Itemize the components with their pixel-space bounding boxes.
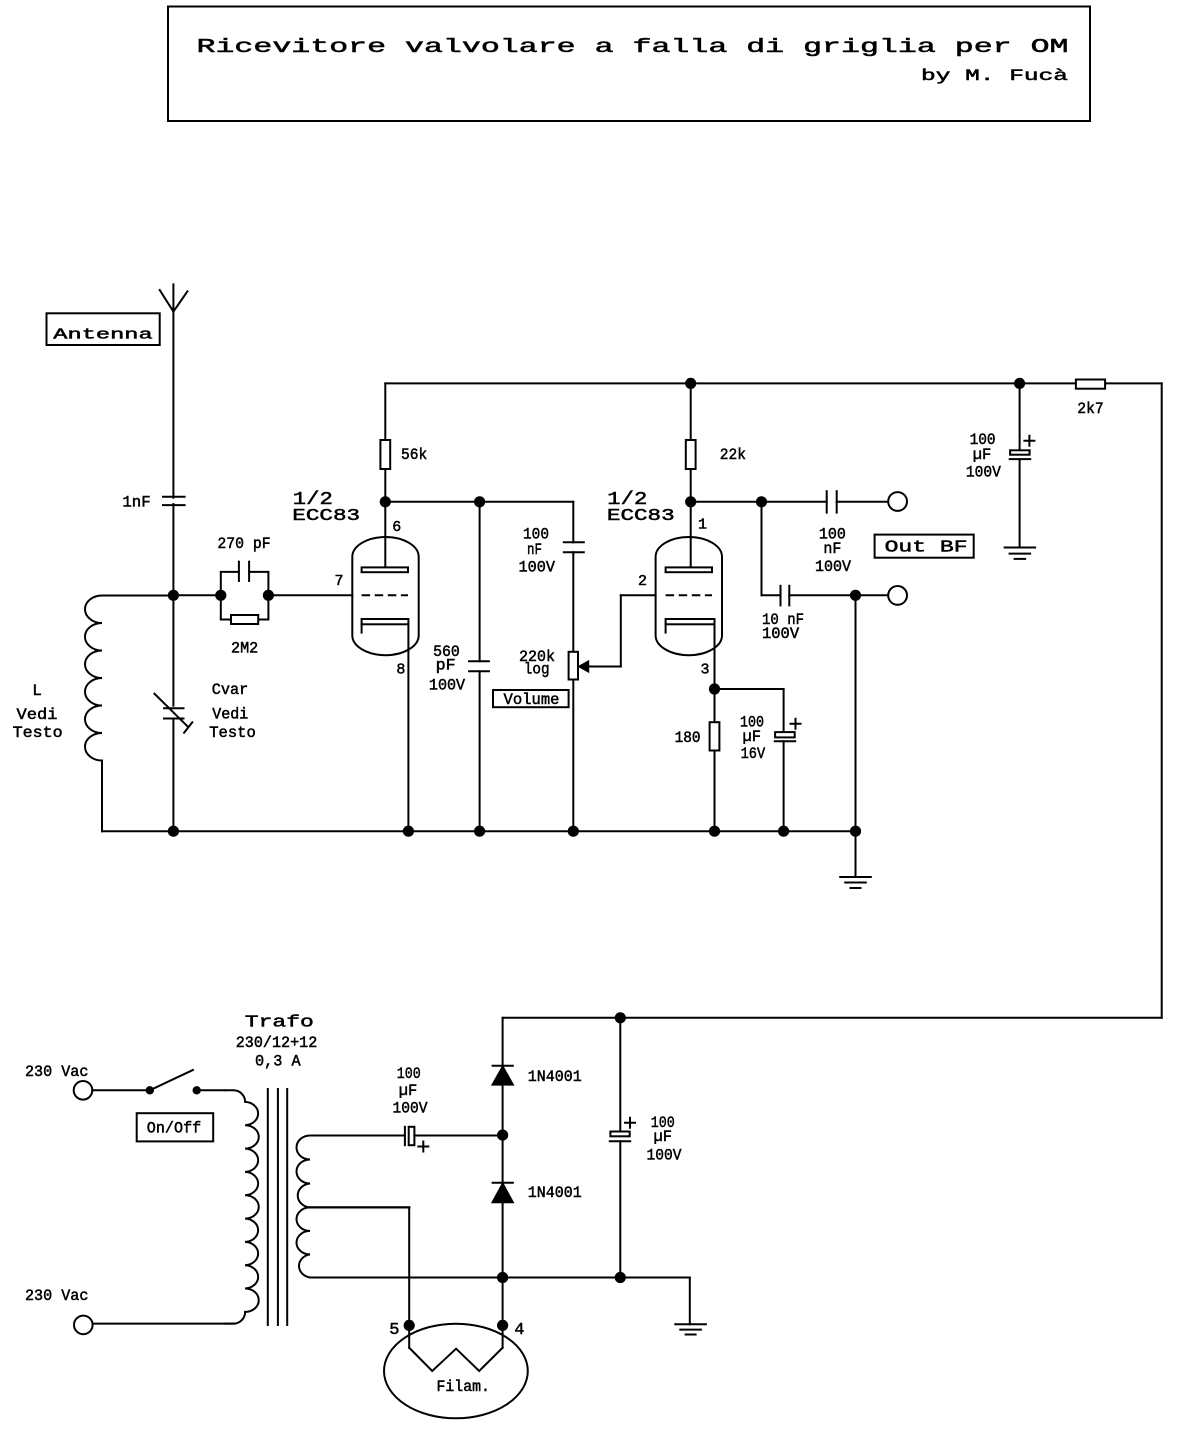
svg-text:1nF: 1nF: [122, 494, 150, 512]
svg-text:8: 8: [396, 661, 405, 678]
filament heater W: [408, 1325, 410, 1347]
wire top rail left stub: [384, 383, 386, 440]
svg-text:L: L: [32, 682, 42, 700]
node pin 5: [404, 1320, 415, 1331]
title box: [168, 7, 1090, 122]
V1b grid wire from pot: [621, 594, 656, 596]
coil L: [85, 596, 173, 832]
svg-text:100V: 100V: [815, 558, 851, 576]
svg-text:16V: 16V: [741, 745, 766, 763]
On/Off label box: [137, 1113, 214, 1141]
wire right B+ bus down: [1161, 383, 1163, 1017]
svg-text:230/12+12: 230/12+12: [236, 1034, 318, 1052]
V1a anode plate: [362, 567, 408, 572]
svg-text:by M. Fucà: by M. Fucà: [921, 67, 1069, 85]
V1b anode plate: [666, 567, 712, 572]
tube V1a envelope: [352, 537, 418, 655]
svg-text:2: 2: [638, 573, 647, 590]
svg-text:230 Vac: 230 Vac: [25, 1287, 88, 1305]
node V1b anode: [685, 496, 696, 507]
svg-text:100V: 100V: [762, 625, 799, 643]
svg-text:log: log: [524, 661, 550, 679]
wire V1a anode row: [385, 501, 573, 503]
svg-text:1N4001: 1N4001: [528, 1184, 582, 1202]
capacitor C8 100uF 100V: [1019, 383, 1021, 450]
tube V1b envelope: [656, 537, 722, 655]
node C10 bottom: [615, 1272, 626, 1283]
wire PSU top rail: [503, 1017, 1162, 1019]
ground symbol PSU: [675, 1323, 706, 1325]
svg-text:100V: 100V: [966, 464, 1001, 482]
ground symbol C8: [1005, 547, 1036, 549]
V1b cathode left stub: [665, 624, 667, 632]
capacitor C6 10nF: [780, 586, 782, 606]
svg-text:µF: µF: [654, 1128, 673, 1146]
svg-text:Trafo: Trafo: [245, 1013, 314, 1032]
svg-text:180: 180: [675, 729, 701, 747]
antenna symbol: [160, 284, 188, 595]
resistor R5 2k7: [1076, 380, 1105, 389]
node D2 bottom: [497, 1272, 508, 1283]
C10 plus sign: [625, 1118, 635, 1128]
svg-text:Out BF: Out BF: [885, 539, 968, 558]
node top rail 22k: [685, 378, 696, 389]
node V1b cathode: [709, 683, 720, 694]
svg-text:270 pF: 270 pF: [217, 535, 270, 553]
node gnd Cvar: [168, 826, 179, 837]
wire to switch: [92, 1089, 150, 1091]
wire antenna gap for C1: [168, 499, 179, 503]
node gnd V1a cathode: [403, 826, 414, 837]
terminal 230Vac bottom: [74, 1316, 93, 1335]
node V1a anode: [380, 496, 391, 507]
output jack top: [888, 492, 907, 511]
wire antenna node to ground rail: [172, 595, 174, 708]
V1b anode lead: [690, 502, 692, 568]
V1a cathode lead to ground: [407, 624, 409, 831]
Out BF label box: [875, 535, 974, 558]
ground symbol main: [855, 831, 857, 877]
Volume label box: [493, 690, 569, 707]
svg-text:56k: 56k: [401, 446, 427, 464]
svg-text:ECC83: ECC83: [607, 507, 675, 526]
svg-text:Ricevitore valvolare a falla d: Ricevitore valvolare a falla di griglia …: [197, 36, 1069, 58]
filament tube envelope: [384, 1324, 528, 1419]
svg-text:22k: 22k: [720, 446, 746, 464]
capacitor C1 1nF: [163, 497, 185, 505]
svg-text:pF: pF: [436, 657, 456, 675]
node combo left: [215, 590, 226, 601]
terminal 230Vac top: [74, 1081, 93, 1100]
diode D1 1N4001: [502, 1018, 504, 1066]
transformer T1 secondary bottom winding: [297, 1207, 503, 1277]
capacitor C2 270pF top branch: [221, 572, 269, 595]
resistor R2 56k: [380, 440, 390, 469]
V1a cathode bar: [362, 619, 409, 624]
antenna label box: [47, 313, 160, 345]
wire center tap to pin 5: [310, 1206, 409, 1208]
V1a cathode left stub: [361, 624, 363, 632]
C9 plus sign: [418, 1142, 428, 1152]
output jack bottom: [888, 586, 907, 605]
capacitor C7 100uF 16V: [715, 688, 784, 690]
node gnd C7: [778, 826, 789, 837]
node gnd R4: [709, 826, 720, 837]
svg-text:µF: µF: [742, 728, 761, 746]
V1a anode lead: [384, 502, 386, 568]
svg-text:Filam.: Filam.: [437, 1378, 490, 1396]
svg-text:On/Off: On/Off: [147, 1119, 201, 1137]
node gnd pot: [568, 826, 579, 837]
capacitor C9 100uF 100V series: [404, 1127, 406, 1145]
svg-text:µF: µF: [973, 446, 992, 464]
variable capacitor Cvar: [165, 707, 185, 711]
svg-text:Volume: Volume: [504, 691, 560, 709]
svg-text:Antenna: Antenna: [53, 327, 152, 344]
svg-text:100V: 100V: [393, 1100, 428, 1118]
svg-text:nF: nF: [527, 541, 542, 559]
svg-text:3: 3: [701, 661, 710, 678]
resistor R1 2M2 bottom branch: [221, 595, 269, 619]
resistor R4 180: [714, 689, 716, 722]
svg-text:µF: µF: [399, 1082, 418, 1100]
transformer T1 secondary top winding: [297, 1136, 410, 1208]
node gnd rail end: [850, 826, 861, 837]
svg-text:Testo: Testo: [13, 724, 63, 742]
svg-text:1N4001: 1N4001: [528, 1068, 582, 1086]
svg-text:100V: 100V: [518, 559, 555, 577]
potentiometer P1 220k: [569, 652, 578, 680]
wire to PSU ground: [503, 1277, 690, 1279]
node combo right: [263, 590, 274, 601]
wire ground rail: [102, 830, 856, 832]
wire 10nF node down to rail: [855, 595, 857, 831]
capacitor C3 560pF: [479, 502, 481, 662]
svg-text:ECC83: ECC83: [292, 507, 360, 526]
svg-text:100: 100: [397, 1065, 421, 1083]
transformer T1 primary: [226, 1090, 259, 1323]
svg-text:6: 6: [392, 519, 401, 536]
node top rail filter: [1014, 378, 1025, 389]
capacitor C10 100uF 100V filter: [619, 1018, 621, 1132]
capacitor C5 100nF out: [826, 491, 828, 512]
node A junction dot: [168, 590, 179, 601]
svg-text:230 Vac: 230 Vac: [25, 1063, 88, 1081]
V1b cathode bar: [666, 619, 715, 624]
diode D2 1N4001: [502, 1136, 504, 1183]
svg-text:Testo: Testo: [209, 724, 256, 742]
svg-text:0,3 A: 0,3 A: [255, 1052, 301, 1070]
C7 plus sign: [791, 719, 801, 729]
resistor R3 22k: [690, 383, 692, 440]
switch On/Off: [146, 1086, 154, 1094]
node 10nF branch: [756, 496, 767, 507]
capacitor C4 100nF: [572, 502, 574, 543]
P1 wiper arrow: [579, 662, 588, 672]
svg-text:Vedi: Vedi: [17, 706, 58, 724]
node output lower: [850, 590, 861, 601]
svg-text:4: 4: [514, 1321, 524, 1340]
node gnd 560pF: [474, 826, 485, 837]
wire bottom primary: [93, 1323, 235, 1325]
V1b cathode lead: [714, 624, 716, 689]
V1b grid (dashed): [666, 594, 712, 596]
svg-text:2M2: 2M2: [231, 639, 258, 657]
svg-text:Cvar: Cvar: [212, 681, 249, 699]
svg-text:7: 7: [335, 573, 344, 590]
node PSU filter top: [615, 1012, 626, 1023]
svg-text:100V: 100V: [647, 1147, 682, 1165]
svg-text:5: 5: [389, 1321, 399, 1340]
wire node A to combo: [173, 594, 220, 596]
node 560pF junction: [474, 496, 485, 507]
transformer T1 core: [267, 1089, 269, 1325]
C8 plus sign: [1024, 436, 1034, 446]
node rectifier mid: [497, 1130, 508, 1141]
V1a grid (dashed): [362, 594, 408, 596]
wire D2 node to pin 4: [502, 1278, 504, 1326]
svg-text:2k7: 2k7: [1077, 400, 1103, 418]
svg-text:Vedi: Vedi: [212, 706, 248, 724]
wire combo to tube grid: [268, 594, 352, 596]
svg-text:nF: nF: [823, 540, 841, 558]
svg-text:100V: 100V: [429, 677, 466, 695]
node pin 4: [497, 1320, 508, 1331]
wire V1b anode to C5: [691, 501, 827, 503]
wire top B+ rail: [385, 382, 1161, 384]
svg-text:1: 1: [698, 517, 707, 534]
wire down to 10nF: [761, 502, 763, 596]
